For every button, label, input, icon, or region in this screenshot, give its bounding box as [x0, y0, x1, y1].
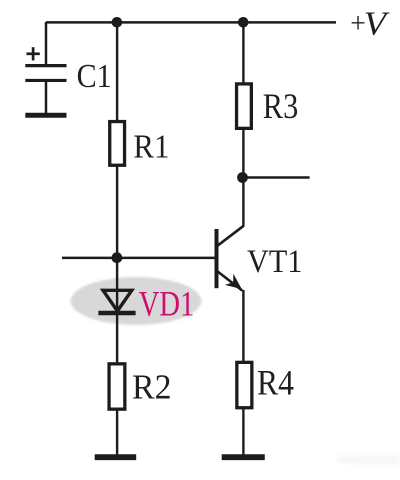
wire: +V top rail — [46, 21, 336, 24]
wire: R3 bottom to collector — [242, 128, 244, 226]
wire: R1 bottom through node to R2 — [116, 165, 118, 364]
ground (R4) — [222, 454, 265, 460]
wire: R3 top lead — [242, 22, 244, 84]
svg-text:R2: R2 — [132, 367, 172, 406]
diode VD1 — [98, 290, 135, 313]
svg-text:R4: R4 — [257, 363, 294, 403]
wire: R1 top lead — [116, 22, 118, 122]
node: top-right junction dot — [238, 17, 249, 28]
wire: R4 bottom lead — [242, 407, 244, 456]
wire: R2 bottom lead — [116, 409, 118, 456]
wire: output stub from collector node — [243, 176, 310, 179]
label +V — [350, 6, 390, 43]
svg-text:R1: R1 — [133, 128, 169, 165]
svg-text:VT1: VT1 — [247, 244, 302, 280]
node: top-left junction dot — [112, 17, 123, 28]
wire: C1 bottom lead — [45, 80, 48, 114]
highlight ellipse around VD1 — [71, 277, 202, 325]
resistor R3 — [237, 84, 252, 128]
svg-text:VD1: VD1 — [139, 284, 195, 324]
svg-text:R3: R3 — [263, 86, 299, 126]
transistor VT1 — [217, 226, 244, 291]
ground (C1) — [25, 113, 66, 118]
resistor R2 — [109, 364, 125, 409]
wire: emitter lead down — [242, 290, 244, 362]
wire: C1 top lead — [45, 22, 48, 65]
watermark smudge bottom right — [338, 456, 400, 467]
resistor R1 — [110, 122, 125, 166]
ground (R2) — [95, 454, 137, 460]
wire: base wire to VT1 — [62, 257, 215, 260]
polarity + of C1 — [27, 47, 40, 60]
resistor R4 — [237, 362, 252, 407]
svg-text:V: V — [364, 6, 391, 43]
capacitor C1 — [25, 66, 66, 81]
node: base junction dot — [112, 252, 123, 263]
node: collector junction dot — [237, 172, 248, 183]
svg-text:C1: C1 — [77, 58, 112, 95]
